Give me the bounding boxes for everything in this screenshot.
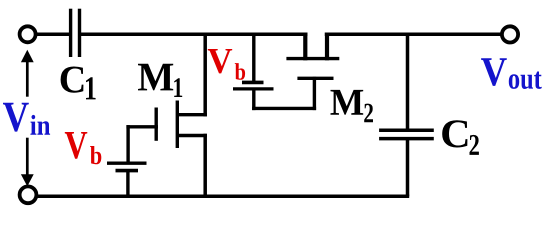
label M2 [331, 90, 374, 122]
wire M1 drain to top [203, 33, 207, 117]
wire C2 bottom riser [406, 139, 410, 197]
M2 source stub [325, 33, 329, 61]
battery short plate [242, 81, 264, 85]
label Vin [3, 103, 50, 135]
capacitor C2 [379, 130, 434, 138]
terminal output [502, 26, 518, 42]
wire C2 top riser [406, 34, 410, 130]
wire top to battery Vb2 [252, 33, 255, 83]
arrow Vin up [21, 50, 34, 97]
wire bottom [35, 195, 409, 199]
battery Vb (M2) [233, 82, 274, 89]
wire M1 source to bottom [203, 134, 207, 198]
label C1 [61, 67, 96, 100]
M1 drain lead [176, 113, 207, 116]
battery short plate [116, 169, 139, 173]
M2 drain stub [303, 33, 307, 61]
M1 gate plate [154, 108, 157, 141]
M2 channel [286, 57, 339, 60]
wire top right (M2 source to output terminal) [325, 33, 503, 37]
label Vb left [65, 132, 102, 164]
M2 gate plate [297, 77, 333, 80]
transistor M1 [126, 101, 206, 149]
wire top middle (C1 to M2 drain) [81, 33, 308, 37]
battery long plate [107, 162, 147, 165]
wire battery to M2 gate [252, 107, 316, 110]
M1 gate lead [126, 125, 158, 128]
wire M2 gate up [313, 77, 316, 110]
label Vb top [208, 49, 245, 80]
wire top left (input terminal to C1) [35, 33, 69, 37]
M1 channel [176, 101, 179, 149]
terminal input top [20, 26, 36, 42]
wire M1 gate down [126, 125, 129, 163]
battery Vb (M1) [107, 163, 147, 170]
terminal input bottom [20, 186, 37, 203]
battery long plate [233, 87, 274, 90]
wire battery to bottom [126, 171, 129, 197]
label C2 [442, 120, 479, 155]
arrow Vin down [21, 138, 34, 187]
wire battery down [252, 89, 255, 110]
label Vout [481, 58, 542, 89]
M1 source lead [176, 134, 207, 137]
label M1 [138, 64, 182, 97]
transistor M2 [286, 33, 339, 79]
capacitor C1 [71, 9, 80, 57]
